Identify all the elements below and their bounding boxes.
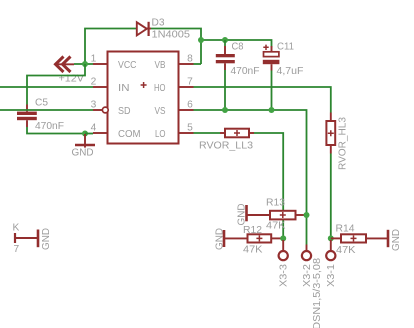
wire IN net to left edge: [0, 86, 93, 88]
pin 7 stub: [179, 86, 194, 88]
junction at C8 top: [222, 37, 228, 43]
resistor R13: [247, 211, 307, 220]
capacitor C8: [216, 40, 235, 70]
ground bar for R14: [387, 230, 390, 247]
ground bar for R12: [223, 230, 226, 247]
svg-text:7: 7: [187, 77, 193, 88]
svg-text:COM: COM: [118, 129, 141, 140]
junction R12/X3-3: [280, 235, 286, 241]
svg-text:VS: VS: [155, 106, 166, 117]
svg-text:1N4005: 1N4005: [152, 30, 191, 41]
svg-text:IN: IN: [118, 83, 130, 94]
connector pad X3-1 stub: [330, 240, 332, 251]
svg-text:RVOR_LL3: RVOR_LL3: [199, 141, 253, 152]
wire LO net pin5 to RVOR_LL3: [194, 132, 221, 134]
ground GND under pin4: [75, 134, 95, 148]
pin 1 stub: [93, 63, 108, 65]
svg-text:GND: GND: [391, 229, 402, 251]
pin K endpoint tick: [14, 233, 16, 243]
svg-text:SD: SD: [118, 106, 131, 117]
svg-text:C11: C11: [277, 42, 294, 53]
svg-text:C5: C5: [35, 98, 48, 109]
svg-text:5: 5: [187, 123, 193, 134]
capacitor C11 polarized: [263, 45, 280, 71]
svg-text:3: 3: [91, 100, 97, 111]
junction R14/X3-1: [328, 235, 334, 241]
resistor RVOR_LL3: [220, 129, 254, 138]
diode D3: [137, 22, 151, 36]
svg-text:RVOR_HL3: RVOR_HL3: [337, 117, 348, 170]
svg-text:X3-3: X3-3: [279, 264, 290, 287]
pin 5 stub: [179, 132, 194, 134]
junction node VCC at pin1: [82, 61, 88, 67]
svg-text:2: 2: [91, 77, 97, 88]
resistor RVOR_HL3: [326, 113, 335, 154]
wire RVOR_HL3 to R14 node: [330, 154, 332, 239]
ground bar for R13: [245, 205, 248, 221]
wire +12V arrow to pin 1: [74, 63, 93, 65]
svg-text:R14: R14: [336, 224, 355, 235]
svg-text:VB: VB: [155, 60, 166, 71]
wire diode cathode to pin8 drop: [151, 29, 201, 65]
svg-text:470nF: 470nF: [231, 66, 260, 77]
svg-text:47K: 47K: [266, 221, 286, 232]
wire pin8 to drop: [194, 63, 202, 65]
connector pad X3-2 stub: [306, 245, 308, 252]
junction R13/X3-2: [304, 212, 310, 218]
ground bar for pin K: [37, 230, 40, 248]
resistor R14: [331, 234, 388, 242]
connector pad X3-1: [326, 251, 335, 260]
connector pad X3-3: [279, 251, 288, 260]
svg-text:GND: GND: [236, 204, 247, 226]
wire VB rail to C8/C11: [201, 40, 272, 48]
junction C11/VS: [269, 107, 275, 113]
svg-text:X3-1: X3-1: [326, 264, 337, 287]
svg-text:GND: GND: [72, 148, 94, 159]
connector pad X3-2: [302, 251, 311, 260]
svg-text:1: 1: [91, 54, 97, 65]
capacitor C5: [17, 105, 37, 128]
wire from node down-left to C5 top: [27, 64, 85, 105]
junction at diode drop: [198, 37, 204, 43]
svg-text:R12: R12: [243, 225, 262, 236]
svg-text:6: 6: [187, 100, 193, 111]
connector pad X3-3 stub: [282, 240, 284, 251]
svg-text:HO: HO: [154, 83, 166, 94]
svg-text:K: K: [13, 223, 20, 234]
junction node COM at pin4: [82, 131, 88, 137]
wire C5 bottom to COM node: [27, 127, 85, 134]
svg-text:4: 4: [91, 123, 97, 134]
junction C8/VS: [222, 107, 228, 113]
pin 8 stub: [179, 63, 194, 65]
IC origin cross: [141, 82, 147, 88]
svg-text:GND: GND: [41, 228, 52, 250]
wire pin K to GND: [15, 237, 38, 239]
svg-text:D3: D3: [152, 18, 165, 29]
wire C8 bottom to VS net: [224, 70, 226, 110]
svg-text:VCC: VCC: [118, 60, 137, 71]
svg-text:R13: R13: [266, 198, 285, 209]
pin 3 stub with inversion bubble: [93, 107, 108, 113]
svg-text:470nF: 470nF: [35, 121, 64, 132]
svg-text:8: 8: [187, 54, 193, 65]
wire C11 bottom to VS net: [271, 71, 273, 111]
resistor R12: [224, 234, 283, 242]
svg-text:47K: 47K: [243, 245, 263, 256]
svg-text:GND: GND: [215, 228, 226, 250]
pin 6 stub: [179, 109, 194, 111]
wire node to pin 4: [85, 133, 93, 135]
svg-text:MKDSN1,5/3-5,08: MKDSN1,5/3-5,08: [312, 258, 323, 328]
svg-text:4,7uF: 4,7uF: [277, 66, 304, 77]
supply +12V arrow: [56, 57, 75, 73]
wire SD net to left edge: [0, 109, 93, 111]
wire VS net pin6 to X3-2 drop: [194, 110, 307, 245]
svg-text:47K: 47K: [336, 245, 356, 256]
svg-text:LO: LO: [155, 129, 166, 140]
svg-text:C8: C8: [232, 42, 244, 53]
wire top rail from +12V node up and right to diode anode: [85, 29, 136, 65]
op-amp U1 IC box: [108, 52, 179, 144]
wire RVOR_LL3 to X3-3 drop: [254, 133, 283, 238]
wire HO net pin7 to RVOR_HL3: [194, 87, 331, 113]
pin 2 stub: [93, 86, 108, 88]
svg-text:7: 7: [14, 244, 20, 255]
pin 4 stub: [93, 132, 108, 134]
